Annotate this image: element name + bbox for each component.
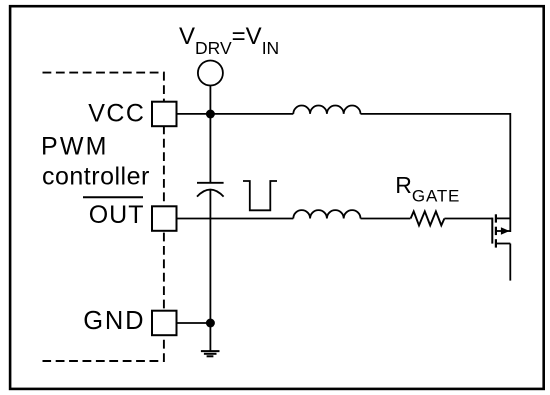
- inductor L1 parasitic (VCC supply lead): [293, 106, 360, 114]
- node A junction dot (VCC node): [206, 110, 215, 119]
- pin label OUT with overline: [83, 197, 145, 229]
- wire node B to ground: [209, 323, 211, 351]
- voltage source VDRV: [198, 61, 223, 86]
- wire GND pin to node B: [177, 322, 211, 324]
- transistor Q1 MOSFET: [492, 214, 510, 247]
- pin VCC box: [152, 102, 177, 127]
- wire L1 to drain: [361, 114, 511, 232]
- PWM controller dashed outline: [43, 73, 164, 361]
- svg-text:VCC: VCC: [88, 99, 145, 127]
- wire L2 to resistor: [361, 218, 411, 220]
- wire OUT pin to L2: [177, 218, 294, 220]
- pulse waveform symbol (OUT drive signal): [243, 181, 277, 210]
- capacitor C1 bypass: [197, 183, 224, 197]
- svg-text:PWM: PWM: [41, 133, 109, 161]
- svg-text:OUT: OUT: [89, 201, 145, 229]
- wire VCC pin to node A: [177, 113, 294, 115]
- resistor RGATE: [411, 211, 445, 225]
- wire source to VCC node: [209, 86, 211, 115]
- label PWM controller: [41, 133, 150, 191]
- inductor L2 parasitic (gate drive lead): [293, 210, 360, 218]
- wire node A to capacitor: [209, 114, 211, 183]
- svg-text:GND: GND: [83, 307, 145, 335]
- svg-text:controller: controller: [42, 163, 150, 191]
- net label VDRV = VIN: [179, 23, 279, 58]
- ground: [201, 351, 220, 356]
- pin GND box: [152, 311, 177, 336]
- pin OUT box: [152, 206, 177, 231]
- node B junction dot (GND node): [206, 319, 215, 328]
- wire capacitor to ground node B: [209, 190, 211, 323]
- wire resistor to gate: [444, 218, 492, 220]
- wire source lead down: [509, 244, 511, 281]
